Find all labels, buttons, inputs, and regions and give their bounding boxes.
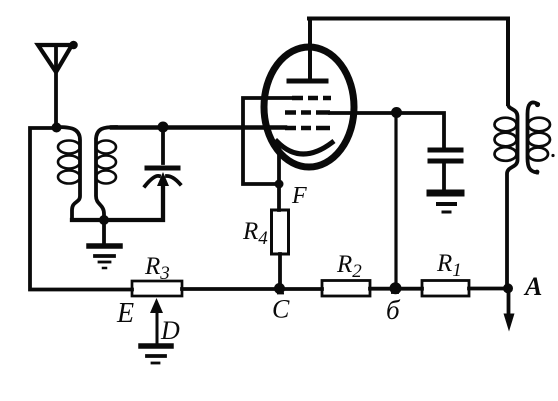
- svg-text:A: A: [523, 272, 542, 301]
- svg-text:E: E: [116, 298, 134, 329]
- svg-text:б: б: [386, 295, 401, 325]
- svg-text:F: F: [291, 183, 307, 209]
- svg-text:C: C: [272, 295, 290, 324]
- svg-text:D: D: [160, 316, 180, 345]
